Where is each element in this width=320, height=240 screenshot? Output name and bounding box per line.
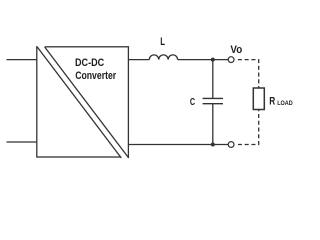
wire: top node down to capacitor bbox=[212, 60, 214, 99]
svg-text:LOAD: LOAD bbox=[277, 101, 293, 107]
svg-text:C: C bbox=[190, 97, 195, 108]
wire: bottom-left input bbox=[7, 141, 37, 143]
converter diagonal line 1 bbox=[37, 47, 121, 158]
dashed wire: Vo terminal to load (top) bbox=[238, 60, 259, 88]
wire: bottom rail bbox=[128, 144, 228, 146]
DC-DC converter block U1 bbox=[37, 47, 129, 157]
svg-text:DC-DC: DC-DC bbox=[75, 57, 104, 69]
wire: inductor to node Vo bbox=[178, 59, 229, 61]
junction dot: bottom node bbox=[211, 143, 215, 147]
terminal circle: Vo bbox=[228, 57, 234, 63]
svg-text:Vo: Vo bbox=[230, 44, 242, 56]
wire: converter output to inductor bbox=[128, 59, 149, 61]
capacitor C bottom plate bbox=[203, 103, 223, 105]
svg-text:R: R bbox=[269, 96, 275, 108]
svg-text:Converter: Converter bbox=[75, 70, 117, 82]
svg-text:L: L bbox=[160, 36, 165, 48]
converter diagonal line 2 bbox=[45, 47, 129, 158]
wire: top-left input bbox=[7, 59, 37, 61]
converter diagonal band (white stripe) bbox=[37, 46, 129, 159]
inductor L bbox=[149, 55, 177, 60]
wire: capacitor down to bottom rail bbox=[212, 104, 214, 145]
resistor R_LOAD bbox=[253, 88, 264, 110]
terminal circle: bottom bbox=[228, 142, 234, 148]
dashed wire: load to bottom terminal bbox=[238, 110, 259, 145]
junction dot: top node bbox=[211, 58, 215, 62]
capacitor C top plate bbox=[203, 97, 223, 99]
